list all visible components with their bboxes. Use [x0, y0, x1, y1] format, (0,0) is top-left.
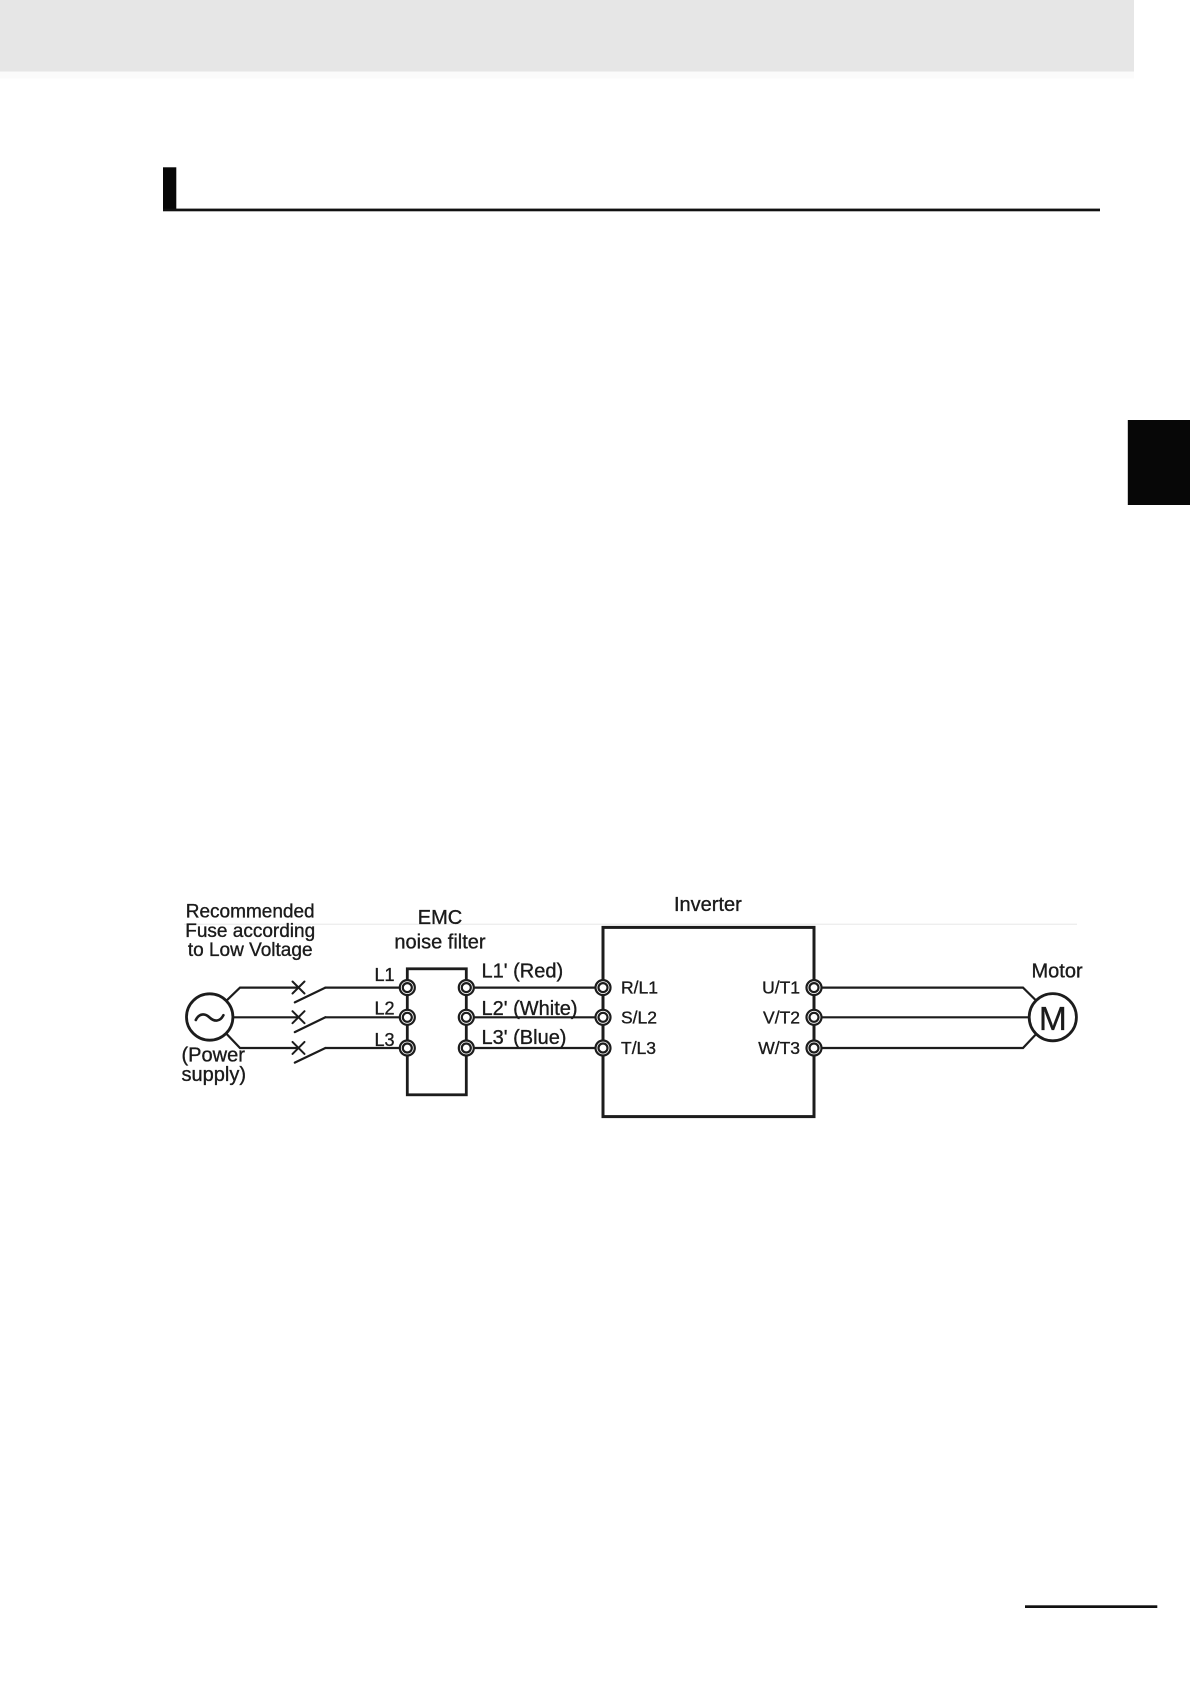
- switch blade S2: [295, 1017, 326, 1032]
- terminals: [400, 980, 822, 1055]
- label: Recommended Fuse according to Low Voltage: [185, 902, 315, 962]
- EMC noise filter box: [407, 969, 466, 1095]
- label: EMC noise filter: [394, 907, 485, 953]
- terminal L1: [400, 980, 415, 995]
- svg-text:Fuse according: Fuse according: [185, 921, 315, 942]
- page edge index tab: [1128, 420, 1190, 505]
- svg-text:S/L2: S/L2: [621, 1007, 657, 1027]
- terminal L2': [459, 1010, 474, 1025]
- svg-text:W/T3: W/T3: [758, 1038, 800, 1058]
- AC power source: [187, 994, 233, 1040]
- svg-text:L2' (White): L2' (White): [482, 998, 578, 1020]
- svg-text:L2: L2: [374, 999, 394, 1019]
- wire L1: source to fuse: [226, 988, 298, 1001]
- svg-text:Inverter: Inverter: [674, 894, 742, 916]
- svg-text:to Low Voltage: to Low Voltage: [188, 940, 313, 961]
- svg-text:noise filter: noise filter: [394, 931, 485, 953]
- labels U/T1 V/T2 W/T3: [758, 978, 800, 1058]
- bottom right rule: [1025, 1605, 1157, 1608]
- terminal L3': [459, 1041, 474, 1056]
- inverter box: [603, 927, 814, 1116]
- terminal W/T3: [807, 1041, 822, 1056]
- svg-text:Motor: Motor: [1032, 961, 1083, 983]
- page header band: [0, 0, 1134, 72]
- terminal L3: [400, 1041, 415, 1056]
- terminal V/T2: [807, 1010, 822, 1025]
- svg-text:L1' (Red): L1' (Red): [482, 961, 564, 983]
- svg-text:V/T2: V/T2: [763, 1007, 800, 1027]
- terminal R/L1: [596, 980, 611, 995]
- svg-text:M: M: [1039, 1001, 1067, 1038]
- wire W/T3 to motor: [822, 1034, 1037, 1048]
- label: (Power supply): [182, 1045, 246, 1087]
- svg-text:(Power: (Power: [182, 1045, 246, 1067]
- wire U/T1 to motor: [822, 988, 1037, 1001]
- section heading rule: [163, 209, 1100, 212]
- wire L3: switch to filter terminal: [325, 1047, 400, 1049]
- terminal S/L2: [596, 1010, 611, 1025]
- wire L2: source to fuse: [233, 1016, 299, 1018]
- svg-text:L3: L3: [374, 1030, 394, 1050]
- switch blade S1: [295, 988, 326, 1003]
- fuse F2: [293, 1011, 305, 1023]
- wire V/T2 to motor: [822, 1016, 1030, 1018]
- svg-text:supply): supply): [182, 1064, 246, 1086]
- wire L1' filter to inverter: [474, 986, 596, 988]
- wire L2: switch to filter terminal: [325, 1016, 400, 1018]
- wire L3: source to fuse: [226, 1034, 298, 1048]
- terminal T/L3: [596, 1041, 611, 1056]
- wire L2' filter to inverter: [474, 1016, 596, 1018]
- svg-text:R/L1: R/L1: [621, 978, 658, 998]
- labels L1 L2 L3: [374, 965, 394, 1050]
- svg-text:T/L3: T/L3: [621, 1038, 656, 1058]
- terminal L1': [459, 980, 474, 995]
- svg-text:L1: L1: [374, 965, 394, 985]
- svg-text:Recommended: Recommended: [186, 902, 315, 923]
- switch blade S3: [295, 1048, 326, 1063]
- svg-text:L3' (Blue): L3' (Blue): [482, 1027, 567, 1049]
- section heading marker: [163, 167, 176, 209]
- labels L1' (Red), L2' (White), L3' (Blue): [482, 961, 578, 1050]
- wire L3' filter to inverter: [474, 1047, 596, 1049]
- wire L1: switch to filter terminal: [325, 986, 400, 988]
- labels R/L1 S/L2 T/L3: [621, 978, 658, 1058]
- svg-text:EMC: EMC: [418, 907, 462, 929]
- terminal L2: [400, 1010, 415, 1025]
- terminal U/T1: [807, 980, 822, 995]
- fuse F1: [293, 982, 305, 994]
- motor circle M1: [1029, 994, 1076, 1041]
- fuse F3: [293, 1042, 305, 1054]
- svg-text:U/T1: U/T1: [762, 978, 800, 998]
